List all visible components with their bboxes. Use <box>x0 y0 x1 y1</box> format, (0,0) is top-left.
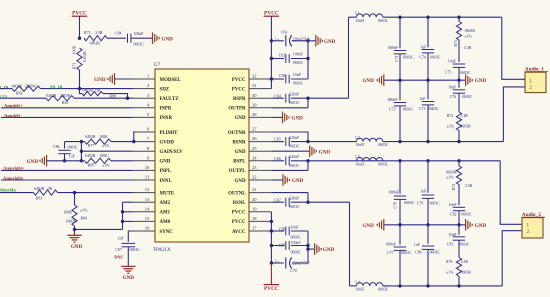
wire C84 to GND <box>131 37 152 39</box>
svg-text:BSPL: BSPL <box>233 160 246 165</box>
svg-text:INNR: INNR <box>160 116 173 121</box>
wire FAULTZ left edge <box>0 97 46 99</box>
svg-text:0603C: 0603C <box>68 146 79 150</box>
svg-text:0603C: 0603C <box>293 61 304 65</box>
wire OUTPR row to bootstrap <box>271 107 308 109</box>
wire to Audio_2 pin1 <box>500 161 522 225</box>
wire to L1 <box>349 16 357 18</box>
svg-text:22: 22 <box>252 175 257 180</box>
wire C68 right <box>291 230 308 232</box>
capacitor C77 680nF <box>394 246 406 248</box>
wire PVCC bus bottom <box>270 212 272 263</box>
wire C72 top <box>399 80 401 100</box>
svg-text:0402R: 0402R <box>83 88 94 92</box>
junction L3/C78 <box>398 159 401 162</box>
svg-text:GND: GND <box>323 247 335 253</box>
svg-text:TPA31X: TPA31X <box>153 248 171 253</box>
wire C81 top <box>458 225 460 235</box>
wire gnd rail channel1 <box>384 79 465 81</box>
wire gnd rail channel2 <box>384 224 465 226</box>
svg-text:GND: GND <box>362 78 374 84</box>
junction L3/C79 <box>426 159 429 162</box>
svg-text:1nF: 1nF <box>419 97 426 101</box>
wire C78 top <box>399 161 401 194</box>
resistor R81 2R0NC <box>46 96 74 101</box>
wire C58 right <box>291 78 308 80</box>
junction GVDD/divider <box>80 140 83 143</box>
capacitor C75 10nF <box>453 63 465 65</box>
svg-text:0603L: 0603L <box>378 288 389 292</box>
wire C79 bottom <box>427 198 429 224</box>
ground symbol rail2 right <box>465 219 467 231</box>
wire PVCC bus top <box>270 16 272 88</box>
svg-text:0603C: 0603C <box>430 251 441 255</box>
svg-text:0R: 0R <box>48 187 53 191</box>
capacitor C87 1nF <box>122 242 136 244</box>
svg-text:PVCC: PVCC <box>232 87 246 92</box>
svg-text:GND: GND <box>324 39 336 45</box>
wire GVDD row left part <box>65 141 85 143</box>
svg-text:L3: L3 <box>355 155 359 159</box>
wire OUTNL riser <box>349 202 351 286</box>
svg-text:Ampright-: Ampright- <box>3 175 24 180</box>
wire C65 right <box>291 141 308 143</box>
svg-text:27: 27 <box>252 127 257 132</box>
junction R80/FAULTZ <box>126 97 129 100</box>
capacitor C73 1nF <box>422 101 434 103</box>
wire AM2 row <box>123 201 134 203</box>
svg-text:3.3R: 3.3R <box>464 46 472 50</box>
svg-text:0603C: 0603C <box>289 164 300 168</box>
svg-text:C82: C82 <box>450 213 457 217</box>
svg-text:17: 17 <box>252 226 257 231</box>
wire INPL row <box>1 169 133 171</box>
pin 17 AVCC <box>249 230 271 232</box>
capacitor C82 10nF <box>453 206 465 208</box>
svg-text:16: 16 <box>145 226 150 231</box>
svg-text:220nF: 220nF <box>289 197 300 201</box>
wire OUTNR row to bootstrap <box>271 131 308 133</box>
wire OUTPR riser <box>348 17 350 98</box>
svg-text:±1%: ±1% <box>102 164 110 168</box>
svg-text:10uH: 10uH <box>355 143 364 147</box>
power port PVCC bottom <box>264 284 280 286</box>
svg-text:0603C: 0603C <box>291 235 302 239</box>
svg-text:C74: C74 <box>419 55 426 59</box>
svg-text:25: 25 <box>252 146 257 151</box>
svg-text:32: 32 <box>252 74 257 79</box>
svg-text:0603C: 0603C <box>293 82 304 86</box>
wire pin24 to C66 <box>271 160 284 162</box>
svg-text:100nF: 100nF <box>293 53 304 57</box>
junction bus C62 <box>270 57 273 60</box>
pin 18 PVCC <box>249 220 271 222</box>
pin 29 OUTPR <box>249 107 271 109</box>
svg-text:0603C: 0603C <box>403 107 414 111</box>
underline Audio_1 <box>525 71 548 73</box>
connector Audio_2 <box>522 218 543 238</box>
junction PLIMIT/GVDD <box>132 140 135 143</box>
wire C73 bottom <box>427 105 429 142</box>
wire C87 to GND <box>127 247 129 266</box>
wire R75 to C84 <box>107 37 126 39</box>
wire GAIN/SLV row <box>81 150 133 152</box>
wire C74 top <box>427 17 429 47</box>
svg-text:0603R: 0603R <box>446 171 457 175</box>
svg-text:C84: C84 <box>115 32 122 36</box>
wire SDZ junction to R80 <box>80 89 83 94</box>
pin 19 PVCC <box>249 211 271 213</box>
svg-text:PVCC: PVCC <box>264 11 279 17</box>
pin 4 INPR <box>133 107 155 109</box>
svg-text:100nF: 100nF <box>134 32 145 36</box>
svg-text:C86: C86 <box>53 145 60 149</box>
svg-text:29: 29 <box>252 102 257 107</box>
wire R82 to SDZ pin <box>41 88 134 90</box>
pin 21 OUTNL <box>249 192 271 194</box>
svg-text:R72: R72 <box>447 114 454 118</box>
svg-text:INPR: INPR <box>160 107 172 112</box>
svg-text:GND: GND <box>162 36 174 42</box>
wire C86 bottom <box>64 154 66 161</box>
ground symbol pin25 <box>309 145 311 157</box>
pin 15 AM0 <box>133 220 155 222</box>
pin 12 MUTE <box>133 192 155 194</box>
svg-text:10nF: 10nF <box>449 203 458 207</box>
svg-text:R74: R74 <box>452 184 456 191</box>
capacitor C74 1nF <box>422 49 434 51</box>
svg-text:INPL: INPL <box>160 169 172 174</box>
pin 31 PVCC <box>249 88 271 90</box>
capacitor C84 100nF <box>127 34 129 43</box>
svg-text:L2: L2 <box>355 136 359 140</box>
wire R84 to GND <box>74 226 76 235</box>
wire C70 right <box>292 262 308 264</box>
capacitor C81 10nF <box>453 236 465 238</box>
svg-text:SYNC: SYNC <box>160 230 174 235</box>
svg-text:U7: U7 <box>154 63 161 68</box>
svg-text:1+: 1+ <box>275 36 280 41</box>
svg-text:GND: GND <box>362 223 374 229</box>
wire OUTPL line <box>308 160 500 162</box>
svg-text:BSNR: BSNR <box>232 140 246 145</box>
svg-text:100K: 100K <box>99 154 108 158</box>
wire C64 to OUT row <box>307 98 309 108</box>
svg-text:13: 13 <box>145 197 150 202</box>
svg-text:PVCC: PVCC <box>72 11 87 17</box>
pin 10 INPL <box>133 169 155 171</box>
capacitor C67 220nF <box>285 198 287 207</box>
svg-text:C81: C81 <box>447 243 454 247</box>
svg-text:GVDD: GVDD <box>160 140 175 145</box>
junction AM1 <box>121 210 124 213</box>
svg-text:C77: C77 <box>387 251 394 255</box>
svg-text:28: 28 <box>252 112 257 117</box>
svg-text:GND: GND <box>475 223 487 229</box>
svg-text:680nF: 680nF <box>388 98 399 102</box>
svg-text:GND: GND <box>292 178 304 184</box>
wire R80 to FAULTZ <box>103 94 128 99</box>
wire C76 to R72 <box>458 93 460 112</box>
svg-text:0603C: 0603C <box>134 43 145 47</box>
svg-text:GND: GND <box>319 149 331 155</box>
svg-text:100K: 100K <box>99 135 108 139</box>
wire R72 bottom <box>458 131 460 142</box>
svg-text:15: 15 <box>145 216 150 221</box>
ground symbol top-middle <box>315 35 317 47</box>
svg-text:21: 21 <box>252 187 257 192</box>
capacitor C72 680nF <box>394 102 406 104</box>
wire INNL row <box>1 179 133 181</box>
svg-text:0402R: 0402R <box>85 135 96 139</box>
wire zobel3 top <box>458 161 460 166</box>
svg-text:OUTNR: OUTNR <box>228 131 246 136</box>
pin 14 AM1 <box>133 211 155 213</box>
svg-text:C64: C64 <box>274 94 281 98</box>
svg-text:±1%: ±1% <box>447 125 455 129</box>
wire pin22 GND <box>271 179 282 181</box>
wire AM pins to GND <box>75 228 123 230</box>
svg-text:R76: R76 <box>446 260 453 264</box>
resistor R82 2R0NC <box>12 86 41 91</box>
ground symbol top-left <box>152 32 154 44</box>
svg-text:MUTE: MUTE <box>160 191 175 196</box>
svg-text:AM0: AM0 <box>160 220 171 225</box>
svg-text:D_1R: D_1R <box>0 85 9 90</box>
svg-text:0603R: 0603R <box>460 125 471 129</box>
svg-text:1nF: 1nF <box>420 189 427 193</box>
wire pin26 to C65 <box>271 141 284 143</box>
svg-text:0402R: 0402R <box>83 51 87 62</box>
svg-text:0603C: 0603C <box>462 95 473 99</box>
svg-text:C68: C68 <box>279 228 286 232</box>
wire C81 to R76 <box>458 240 460 257</box>
pin 9 GND <box>133 160 155 162</box>
svg-text:C73: C73 <box>419 107 426 111</box>
capacitor C66 220nF <box>285 156 287 165</box>
wire SYNC to C87 <box>128 231 134 242</box>
connector Audio_1 <box>525 72 546 92</box>
resistor R74 3.3R <box>456 166 461 185</box>
svg-text:Ampleft-: Ampleft- <box>4 113 22 118</box>
pin 6 PLIMIT <box>133 131 155 133</box>
wire C62 right <box>291 58 308 60</box>
svg-text:GND: GND <box>235 150 246 155</box>
svg-text:0603R: 0603R <box>465 29 476 33</box>
wire to L4 <box>350 285 357 287</box>
wire L4 to corner <box>383 285 502 287</box>
svg-text:R73: R73 <box>454 40 458 47</box>
svg-text:AVCC: AVCC <box>232 230 246 235</box>
capacitor C58 10nF <box>285 75 287 84</box>
capacitor C68 10nF <box>285 227 287 236</box>
ground symbol pin1 MODSEL <box>114 73 116 85</box>
svg-text:0603C: 0603C <box>430 55 441 59</box>
wire OUTNL exit <box>308 201 350 203</box>
junction node PVCC/R75/R71 <box>78 37 81 40</box>
junction rail2 C82 <box>457 223 460 226</box>
svg-text:GND: GND <box>235 116 246 121</box>
junction MUTE/R84 <box>73 191 76 194</box>
svg-text:0603C: 0603C <box>459 242 470 246</box>
wire R73 to C75 <box>458 40 460 62</box>
svg-text:Ampright+: Ampright+ <box>3 166 25 171</box>
capacitor C63 220uF/50V <box>285 35 287 46</box>
svg-text:680nF: 680nF <box>386 242 397 246</box>
svg-text:3.3R: 3.3R <box>95 31 103 35</box>
svg-text:GND: GND <box>94 77 106 83</box>
svg-text:100nF: 100nF <box>291 241 302 245</box>
junction bus C70 <box>270 261 273 264</box>
junction SDZ/R71/R80 <box>78 87 81 90</box>
pin 28 GND <box>249 116 271 118</box>
wire right gnd vertical bottom <box>307 231 309 263</box>
svg-text:20: 20 <box>252 197 257 202</box>
svg-text:0603C: 0603C <box>291 250 302 254</box>
junction rail2 C78 <box>398 223 401 226</box>
ground symbol rail1 left <box>383 74 385 86</box>
svg-text:11: 11 <box>145 175 150 180</box>
svg-text:±1%: ±1% <box>446 176 454 180</box>
svg-text:0603L: 0603L <box>378 19 389 23</box>
svg-text:12: 12 <box>145 187 150 192</box>
inductor L3 10uH <box>356 157 382 160</box>
svg-text:GND: GND <box>123 275 135 281</box>
wire PVCC down <box>79 16 81 38</box>
svg-text:0402R: 0402R <box>66 220 77 224</box>
svg-text:0R: 0R <box>96 88 101 92</box>
svg-text:R71: R71 <box>73 63 77 70</box>
junction rail1 C71 <box>398 79 401 82</box>
svg-text:R83: R83 <box>36 196 43 200</box>
svg-text:L1: L1 <box>355 12 359 16</box>
svg-text:0603C: 0603C <box>430 202 441 206</box>
wire C77 top <box>399 225 401 245</box>
junction rail2 C79 <box>426 223 429 226</box>
svg-text:2R0NC: 2R0NC <box>60 94 72 98</box>
wire pin20 to C67 <box>271 201 284 203</box>
svg-text:19: 19 <box>252 206 257 211</box>
svg-text:R80: R80 <box>110 94 117 98</box>
junction C64/out <box>306 97 309 100</box>
svg-text:PVCC: PVCC <box>232 78 246 83</box>
pin 3 FAULTZ <box>133 97 155 99</box>
svg-text:220nF: 220nF <box>289 136 300 140</box>
wire R76 bottom <box>458 276 460 286</box>
svg-text:GND: GND <box>235 179 246 184</box>
junction L2/R72 <box>457 140 460 143</box>
resistor R75 3.3R <box>84 36 107 41</box>
wire C78 bottom <box>399 199 401 224</box>
svg-text:0603C: 0603C <box>461 213 472 217</box>
wire C63 to gnd rail <box>292 40 308 42</box>
ground symbol pin22 <box>282 174 284 186</box>
wire INNR row <box>1 116 133 118</box>
svg-text:C62: C62 <box>279 53 286 57</box>
svg-text:3.3R: 3.3R <box>461 260 469 264</box>
svg-text:18: 18 <box>252 216 257 221</box>
svg-text:MuteMic: MuteMic <box>0 188 17 193</box>
svg-text:BSPR: BSPR <box>233 97 246 102</box>
wire C64 right <box>291 97 308 99</box>
svg-text:10uH: 10uH <box>355 19 364 23</box>
svg-text:C71: C71 <box>395 55 399 62</box>
resistor R80 0R <box>82 91 103 95</box>
pin 8 GAIN/SLV <box>133 150 155 152</box>
svg-text:OUTNL: OUTNL <box>228 191 246 196</box>
svg-text:Ampleft+: Ampleft+ <box>4 103 23 108</box>
svg-text:0603L: 0603L <box>378 162 389 166</box>
capacitor C62 100nF <box>285 54 287 63</box>
junction R84/AM line <box>73 228 76 231</box>
pin 26 BSNR <box>249 141 271 143</box>
svg-text:C76: C76 <box>450 95 457 99</box>
pin 24 BSPL <box>249 160 271 162</box>
svg-text:0603R: 0603R <box>461 271 472 275</box>
wire PLIMIT to GVDD <box>133 132 135 142</box>
svg-text:±1%: ±1% <box>80 208 88 212</box>
wire to gnd top-middle <box>308 40 315 42</box>
svg-text:C78: C78 <box>394 202 398 209</box>
svg-text:C66: C66 <box>274 157 281 161</box>
svg-text:GAIN/SLV: GAIN/SLV <box>160 150 184 155</box>
junction L2/C73 <box>426 140 429 143</box>
wire AM0 row <box>123 220 134 222</box>
svg-text:R84: R84 <box>81 217 88 221</box>
junction gnd stub bottom <box>306 247 309 250</box>
capacitor C71 680nF <box>394 50 406 52</box>
wire C80 bottom <box>427 249 429 286</box>
wire C73 top <box>427 80 429 99</box>
resistor R76 3.3R <box>456 258 461 277</box>
wire C71 bottom <box>399 54 401 80</box>
svg-text:C87: C87 <box>115 248 122 252</box>
wire C77 bottom <box>399 250 401 286</box>
resistor R77 100K <box>85 139 112 144</box>
pin 27 OUTNR <box>249 131 271 133</box>
wire INPR row <box>1 107 133 109</box>
svg-text:14: 14 <box>145 206 150 211</box>
wire pin25 GND <box>271 150 309 152</box>
wire bus to C70 <box>271 262 283 264</box>
svg-text:C63: C63 <box>281 30 288 34</box>
ground symbol pin28 <box>282 112 284 124</box>
pin 11 INNL <box>133 179 155 181</box>
svg-text:C67: C67 <box>274 198 281 202</box>
svg-text:C65: C65 <box>274 138 281 142</box>
power port PVCC top-middle <box>264 15 280 17</box>
svg-text:0402R: 0402R <box>85 154 96 158</box>
svg-text:OUTPL: OUTPL <box>229 169 247 174</box>
svg-text:C79: C79 <box>417 202 424 206</box>
wire AM1 row <box>123 211 134 213</box>
svg-text:C69: C69 <box>279 243 286 247</box>
svg-text:10uH: 10uH <box>355 288 364 292</box>
svg-text:0603C: 0603C <box>289 101 300 105</box>
svg-text:R75: R75 <box>84 31 91 35</box>
wire GND row to R85 <box>47 160 85 162</box>
junction L2/C72 <box>398 140 401 143</box>
svg-text:0603C: 0603C <box>130 248 141 252</box>
resistor R83 0R <box>34 190 58 195</box>
ground symbol below C87 <box>121 265 135 267</box>
wire pin30 to C64 <box>271 97 284 99</box>
wire C74 bottom <box>427 53 429 80</box>
wire C76 top <box>458 80 460 88</box>
svg-text:0402R: 0402R <box>34 187 45 191</box>
svg-text:220nF: 220nF <box>289 93 300 97</box>
wire OUTNL row to bootstrap <box>271 192 308 194</box>
